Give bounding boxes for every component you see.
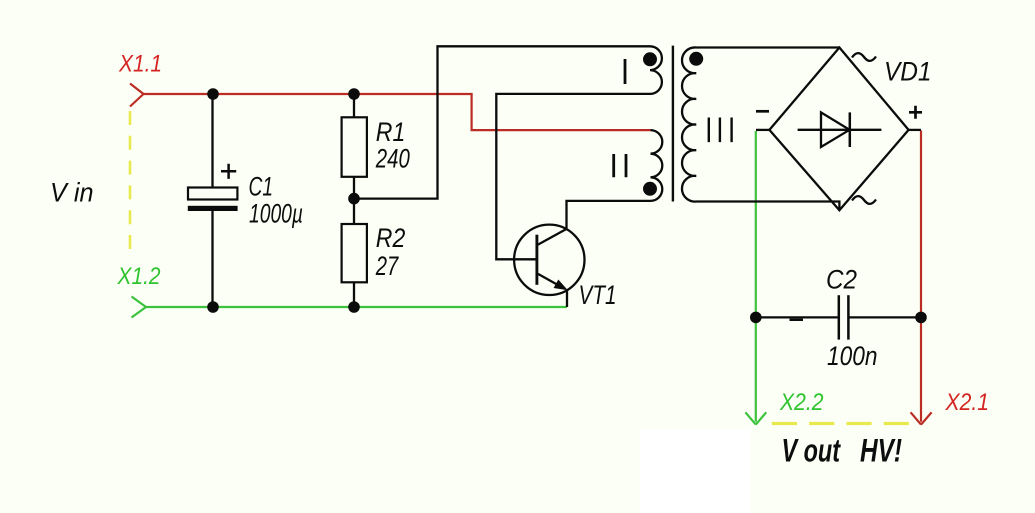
svg-text:VD1: VD1: [884, 57, 932, 87]
svg-text:R2: R2: [376, 223, 406, 253]
svg-text:100n: 100n: [827, 341, 878, 371]
svg-text:V in: V in: [50, 178, 94, 208]
svg-text:X1.2: X1.2: [117, 263, 161, 290]
svg-text:C1: C1: [249, 172, 274, 202]
svg-text:V out: V out: [782, 433, 841, 469]
svg-text:C2: C2: [826, 264, 857, 294]
svg-text:X2.1: X2.1: [945, 389, 989, 416]
svg-text:240: 240: [375, 144, 410, 174]
svg-text:X1.1: X1.1: [118, 51, 162, 78]
svg-text:27: 27: [375, 251, 399, 281]
svg-text:R1: R1: [376, 117, 406, 147]
svg-text:VT1: VT1: [579, 280, 617, 310]
svg-text:X2.2: X2.2: [779, 389, 823, 416]
svg-text:HV!: HV!: [860, 433, 902, 469]
svg-text:1000µ: 1000µ: [249, 198, 303, 228]
